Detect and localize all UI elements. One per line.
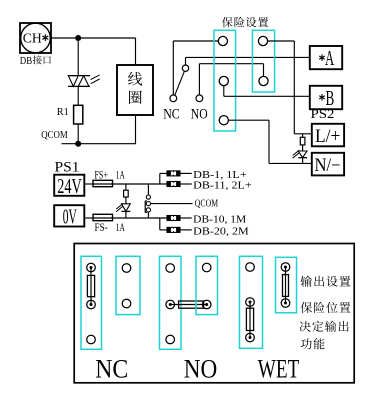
connector pin DB-1 xyxy=(167,171,192,176)
svg-text:1A: 1A xyxy=(116,220,125,234)
fuse holder NC right (highlight) xyxy=(116,256,140,314)
fuse holder block 1 (highlight) xyxy=(214,30,236,131)
fuse holder NC left (highlight) xyxy=(81,256,102,349)
wire CH* output to coil (horizontal) xyxy=(51,37,136,39)
connector pin DB-11 xyxy=(167,182,192,187)
svg-text:DB-11, 2L+: DB-11, 2L+ xyxy=(193,179,252,191)
resistor (LED series, power indicator) xyxy=(124,184,129,204)
fuse holder WET (highlight) xyxy=(240,256,263,348)
terminal WET-1 xyxy=(246,263,255,272)
relay contact NO terminal xyxy=(196,95,203,102)
connector pin DB-20 xyxy=(167,227,192,232)
wire 24V rail xyxy=(113,183,168,185)
terminal NC-2 xyxy=(87,300,96,309)
terminal NC-1 xyxy=(87,263,96,272)
terminal WET-2 xyxy=(246,298,255,307)
label 功能 xyxy=(301,338,325,349)
svg-text:FS+: FS+ xyxy=(95,168,108,182)
terminal c5 xyxy=(259,76,268,85)
terminal WET-3 xyxy=(246,333,255,342)
terminal c2 xyxy=(219,76,228,85)
terminal OUT-2 xyxy=(281,299,290,308)
label DB接口 xyxy=(20,55,51,67)
label FS- 1A xyxy=(95,220,126,234)
wire QCOM (middle) xyxy=(151,203,193,205)
svg-text:DB-10, 1M: DB-10, 1M xyxy=(193,213,246,225)
relay contact blade (moving) xyxy=(175,71,185,95)
terminal NC-3 xyxy=(87,335,96,344)
output options panel outline xyxy=(74,244,354,383)
DB interface connector CH* (square with inscribed circle) xyxy=(20,23,51,53)
terminal OUT-1 xyxy=(281,263,290,272)
terminal NO-4 xyxy=(202,263,211,272)
wire NO drop to c5 xyxy=(263,64,265,77)
label FS+ 1A xyxy=(95,168,126,182)
svg-text:PS2: PS2 xyxy=(311,107,335,121)
terminal NO-3 xyxy=(166,335,175,344)
fuse holder output-select (highlight) xyxy=(276,257,297,313)
svg-text:N/−: N/− xyxy=(315,156,341,176)
label 决定输出 xyxy=(300,321,349,332)
wire c2 to terminal block *B xyxy=(224,86,310,97)
terminal block *A xyxy=(310,46,342,70)
wire NO riser xyxy=(198,64,200,95)
wire c3 to terminal block N/- xyxy=(228,120,311,163)
svg-text:FS-: FS- xyxy=(95,220,108,234)
fuse holder NO right (highlight) xyxy=(196,256,218,314)
terminal block L/+ xyxy=(312,124,344,147)
terminal block N/- xyxy=(312,153,344,176)
fuse link output-select xyxy=(283,267,289,303)
wire c4 to L/+ (down the right side) xyxy=(268,41,295,134)
svg-text:L/+: L/+ xyxy=(315,127,340,147)
wire NO to fuse terminal c5 (horizontal) xyxy=(199,63,263,65)
svg-text:CH: CH xyxy=(23,31,42,46)
svg-text:QCOM: QCOM xyxy=(195,197,218,209)
relay coil K1 (线圈) xyxy=(117,65,153,115)
label 输出设置 xyxy=(301,276,351,287)
svg-text:0V: 0V xyxy=(63,205,77,229)
terminal block *B xyxy=(310,86,342,110)
TVS suppressor diode D1 (bidirectional, with emission marks) xyxy=(68,75,100,87)
svg-text:A: A xyxy=(325,46,335,70)
terminal NO-2 xyxy=(166,300,175,309)
fuse F2 (PS2 indicator branch) xyxy=(300,134,305,151)
wire to L/+ box xyxy=(294,133,312,135)
terminal c4 xyxy=(258,36,267,45)
node junction QCOM xyxy=(75,141,81,147)
relay contact NC terminal xyxy=(170,95,177,102)
wire R1 to QCOM rail xyxy=(77,124,79,144)
svg-text:NO: NO xyxy=(191,106,208,122)
terminal NC-4 xyxy=(122,264,131,273)
wire pivot riser xyxy=(185,57,187,65)
wire common to terminal block *A xyxy=(186,56,310,58)
svg-text:WET: WET xyxy=(258,355,300,384)
wire NC contact riser xyxy=(172,41,174,95)
node junction at CH* output xyxy=(75,35,81,41)
wire branch DB-1 xyxy=(160,173,167,184)
svg-text:NC: NC xyxy=(95,355,128,384)
svg-text:R1: R1 xyxy=(57,106,69,118)
wire coil bottom to QCOM rail xyxy=(135,115,137,144)
svg-text:1A: 1A xyxy=(116,168,125,182)
resistor R1 xyxy=(57,105,83,124)
wire 0V rail xyxy=(113,217,168,219)
svg-text:NO: NO xyxy=(184,355,218,384)
connector pin DB-10 xyxy=(167,216,192,221)
fuse holder block 2 (highlight) xyxy=(252,30,274,92)
wire coil top drop xyxy=(135,38,137,65)
svg-text:DB-20, 2M: DB-20, 2M xyxy=(193,225,249,237)
wire QCOM rail xyxy=(62,143,136,145)
fuse holder NO left (highlight) xyxy=(160,256,182,349)
LED indicator LD2 (PS2 power) xyxy=(293,150,307,163)
fuse FS+ (1A) xyxy=(84,180,112,186)
fuse link NO (horizontal) xyxy=(170,301,207,308)
wire junction down to TVS xyxy=(77,38,79,76)
label 保险位置 xyxy=(301,302,351,313)
fuse link WET (between bottom terminals) xyxy=(246,302,253,338)
terminal NO-1 xyxy=(166,264,175,273)
wire NC contact to fuse terminal c1 xyxy=(173,40,218,42)
power supply terminal 0V xyxy=(54,205,84,229)
jumper link (QCOM polarity select) xyxy=(145,184,150,218)
svg-text:QCOM: QCOM xyxy=(41,129,68,141)
wire branch DB-20 xyxy=(160,218,167,230)
terminal NO-5 xyxy=(202,300,211,309)
relay contact common pivot xyxy=(182,65,188,71)
svg-text:NC: NC xyxy=(163,106,180,122)
power supply terminal 24V xyxy=(54,174,84,198)
terminal c3 xyxy=(219,116,228,125)
terminal NC-5 xyxy=(122,299,131,308)
LED indicator LD1 (PS1 power) xyxy=(116,204,130,218)
svg-text:24V: 24V xyxy=(57,174,82,198)
fuse FS- (1A) xyxy=(84,214,112,220)
svg-text:DB: DB xyxy=(20,56,32,67)
terminal c1 xyxy=(218,36,227,45)
label 保险设置 (fuse setting) xyxy=(222,17,268,27)
wire TVS to R1 xyxy=(77,86,79,105)
fuse link NC (between top terminals) xyxy=(87,268,94,305)
